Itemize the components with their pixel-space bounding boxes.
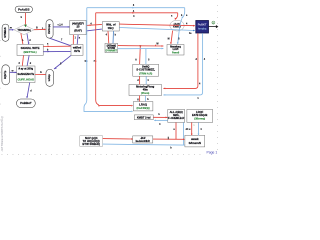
svg-text:M: M <box>168 39 170 41</box>
node N7 process box <box>71 45 83 56</box>
wire red NR1 down to bottom rail <box>175 123 177 140</box>
svg-text:(3Bmwq): (3Bmwq) <box>194 116 205 120</box>
wire cyan NR1 to NN <box>154 119 168 121</box>
svg-text:wAkp: wAkp <box>47 74 51 81</box>
wire cyan NR1 down to bottom rail <box>183 123 185 145</box>
svg-text:SYNBkS: SYNBkS <box>3 27 7 38</box>
arrows into NM left <box>131 105 133 107</box>
svg-text:wkRed: wkRed <box>73 46 82 50</box>
wire red NN to NR1 <box>153 116 167 118</box>
svg-text:PoAdSS: PoAdSS <box>18 8 29 12</box>
wire purple N4 to N7 diagonal <box>50 38 71 45</box>
page border dotted left <box>0 40 1 130</box>
node NR1 box <box>168 109 185 122</box>
wire red bottom rail left segment <box>103 138 133 140</box>
node N1 start terminal <box>15 6 32 13</box>
svg-text:TRIGMWq: TRIGMWq <box>17 28 31 32</box>
ARROWHEADS AND LABELS <box>10 5 218 150</box>
EDGES <box>9 8 217 145</box>
node NF left tall terminal <box>2 65 10 85</box>
svg-text:S-CUSTOMIZE,: S-CUSTOMIZE, <box>136 67 155 71</box>
page border dotted bottom <box>2 153 206 155</box>
wire cyan N6b to NJ <box>118 48 164 50</box>
wire purple ND to NE <box>27 56 29 66</box>
wire red long vertical to NM <box>96 13 132 107</box>
wire blue N6 to N6b <box>112 31 115 43</box>
mid arrow and label on N5-N6 red edge <box>90 24 92 26</box>
node N4 tall terminal <box>46 20 53 39</box>
node NJ process box <box>167 44 184 55</box>
node NE process box <box>17 66 35 83</box>
node N2 decision diamond <box>14 25 34 35</box>
wire red N11 loop down-left to NL <box>163 33 198 88</box>
node N5 process box <box>70 20 86 34</box>
wire cyan N10 to NJ <box>178 19 182 44</box>
svg-text:F-CHEMLB.R: F-CHEMLB.R <box>168 116 184 120</box>
wire red ND to N7 <box>43 45 70 47</box>
wire red N5 to N6 <box>86 24 102 25</box>
wire red branch N6b to NK <box>139 46 142 64</box>
arrow cyan into N11 <box>193 30 195 32</box>
wire cyan N6 to N11 across N10 <box>119 28 195 31</box>
arrowheads into N10 <box>175 18 177 20</box>
node NH end terminal <box>17 99 36 108</box>
svg-text:Page 1: Page 1 <box>207 151 218 155</box>
arrow and label on ND-N7 red edge <box>48 45 50 47</box>
svg-text:PuBKT: PuBKT <box>198 23 207 27</box>
wire red bottom rail right segment <box>153 138 184 140</box>
node legend box <box>80 136 103 147</box>
wire cyan long vertical to NM <box>84 8 131 112</box>
node ND signal wire box <box>17 45 43 56</box>
wire purple N2 to ND <box>27 34 29 45</box>
svg-text:PuBBuT: PuBBuT <box>20 101 32 105</box>
wire cyan NL to NM <box>144 96 146 102</box>
arrowhead red into N4 <box>44 29 46 31</box>
node NP box <box>133 136 153 143</box>
wire red NL to NM <box>139 96 141 102</box>
green arrowhead at N2 top <box>24 25 27 28</box>
wire red N5 to N7 <box>72 35 74 45</box>
svg-text:E37B khQdk: E37B khQdk <box>192 113 208 117</box>
arrows into NQ top <box>191 134 193 136</box>
svg-text:w: w <box>10 28 12 30</box>
svg-text:+,1,4: +,1,4 <box>57 24 63 27</box>
wire red ND to NE <box>22 56 23 66</box>
arrow and label on N7-NG diagonal <box>55 67 57 69</box>
svg-text:(RAF): (RAF) <box>74 28 82 32</box>
node N10 gray ellipse <box>170 20 184 31</box>
wire purple NF to NE <box>10 71 17 73</box>
node N6 process box <box>102 22 119 31</box>
arrow red into NP left <box>131 138 133 140</box>
svg-text:Fwm6: Fwm6 <box>172 50 180 54</box>
arrows and labels into NJ top <box>170 42 172 44</box>
node NK process box <box>133 64 159 76</box>
svg-text:(Prem): (Prem) <box>141 91 149 95</box>
wire red top loop right descent into N10 <box>175 13 177 19</box>
wire purple N5 to N6 <box>86 29 102 31</box>
node N11 navy box <box>196 21 209 34</box>
wire cyan NR2 to NQ <box>198 123 200 136</box>
wire red N2 to N4 <box>34 28 45 30</box>
arrow cyan into NN right <box>154 120 156 122</box>
wire cyan N11 loop down-left to NL <box>163 33 202 95</box>
wire purple N3 to N2 <box>9 29 13 31</box>
wire purple ND to N7 <box>43 50 70 52</box>
node NM process box <box>133 102 153 111</box>
svg-text:KMBT 2-tal: KMBT 2-tal <box>137 115 151 119</box>
arrow and label on NE-NH edge <box>26 96 28 98</box>
arrow red into NQ left <box>183 138 185 140</box>
svg-text:# ay at 200g: # ay at 200g <box>18 66 33 70</box>
svg-text:JGT TOGGLEPOINTS BLPD-Q: JGT TOGGLEPOINTS BLPD-Q <box>1 116 4 151</box>
arrowhead purple into ND top <box>28 43 30 45</box>
svg-text:S#msruN: S#msruN <box>189 141 201 145</box>
node NQ box <box>185 135 205 147</box>
arrowhead purple into N5 <box>68 26 70 28</box>
arrowhead purple into N2 <box>12 29 14 31</box>
arrows into NJ <box>162 45 164 47</box>
svg-text:kVdApq: kVdApq <box>47 24 51 34</box>
wire red N1 to N2 <box>25 13 27 25</box>
node NL process box <box>129 85 162 96</box>
svg-text:AVTs: AVTs <box>74 49 81 53</box>
black arrowhead at output <box>216 25 219 28</box>
svg-text:kQbTp: kQbTp <box>3 70 7 79</box>
wire cyan branch N6b to NK <box>145 49 147 65</box>
svg-text:(CuFFB)Q: (CuFFB)Q <box>136 106 150 110</box>
arrow red into N11 <box>193 25 195 27</box>
wire purple NE to NH <box>27 83 30 98</box>
svg-text:ke.kontrikR: ke.kontrikR <box>136 139 150 143</box>
svg-text:45m: 45m <box>143 88 149 91</box>
node NN thin box <box>134 115 153 120</box>
arrow red into NR1 left <box>166 117 168 119</box>
svg-text:w: w <box>12 70 14 72</box>
wire cyan NK to NL <box>145 76 147 84</box>
wire cyan top loop horizontal <box>87 7 185 9</box>
wire purple N5 to N7 <box>76 35 79 45</box>
wire red N6 to N11 across N10 <box>119 24 195 26</box>
svg-text:thiry: thiry <box>108 26 115 30</box>
wire red top loop horizontal <box>96 12 178 14</box>
wire red NR2 to NQ <box>191 123 193 136</box>
svg-text:BTW SWBdQ: BTW SWBdQ <box>82 142 100 146</box>
tick on bottom red rail <box>167 137 170 140</box>
svg-text:(BETTAL): (BETTAL) <box>24 50 37 54</box>
wire red NE to NG <box>35 73 46 75</box>
node NR2 box <box>187 109 213 122</box>
wire red N6 to N6b <box>107 31 110 43</box>
wire purple N4 to N5 <box>53 26 69 28</box>
arrows into NL right <box>163 88 165 90</box>
wire cyan top loop right descent into N10 <box>182 8 184 18</box>
svg-text:DYNAMlT: DYNAMlT <box>106 50 118 53</box>
wire red N2 to ND <box>21 33 23 44</box>
wire red N6b to NJ <box>118 45 164 47</box>
wire black N11 to output <box>209 26 217 28</box>
arrow and label on ND-N7 purple edge <box>48 51 50 53</box>
wire cyan bottom rail <box>103 144 185 145</box>
V mark on N6b-NK bend <box>139 45 141 47</box>
svg-text:CUFF, HEAD: CUFF, HEAD <box>17 78 34 82</box>
node NG tall terminal <box>46 69 54 86</box>
svg-text:hmqkq: hmqkq <box>198 27 207 31</box>
wire red NK to NL <box>139 76 141 84</box>
wire purple N7 to NG diagonal <box>54 55 71 69</box>
node N3 left terminal <box>2 24 9 41</box>
green output label <box>212 21 215 24</box>
svg-text:SuNGENCTs: SuNGENCTs <box>17 72 34 76</box>
wire red N10 to NJ <box>171 31 173 44</box>
page border dotted right <box>217 5 219 151</box>
svg-text:(TRIM A.R): (TRIM A.R) <box>139 71 152 75</box>
node N6b process box <box>105 43 118 52</box>
